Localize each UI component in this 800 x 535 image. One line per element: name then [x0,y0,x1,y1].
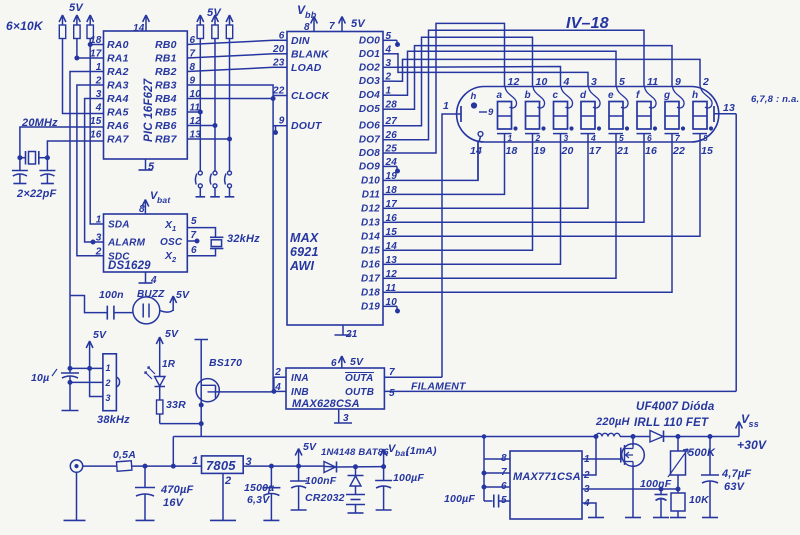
svg-text:INA: INA [291,373,309,384]
tube digit 4 anode bar pin 4 [581,133,597,143]
label 2x22pF [16,188,56,200]
pin 27 DO6 stub [359,116,397,132]
5V arrow buzzer [170,289,190,311]
crystal X2 32kHz [210,237,223,248]
svg-text:6×10K: 6×10K [6,19,44,33]
svg-text:c: c [553,90,559,101]
pin 7 RB1 [155,49,196,65]
label +30V [737,438,767,452]
svg-text:1: 1 [584,454,590,465]
capacitor 22pF right [39,158,55,184]
pin 13 D16 stub [361,255,397,271]
label MAX 6921 AWI [289,231,319,273]
svg-text:7: 7 [329,21,335,32]
ground 4.7uF [702,517,718,519]
tube grid pin 2 label [702,76,709,88]
svg-text:3: 3 [96,233,102,244]
svg-text:14: 14 [133,23,145,34]
tube filament bar left [460,106,462,122]
pin 8 Vbb arrow [304,17,317,34]
pin 3 ALARM DS1629 [96,233,146,249]
pin 2 RA3 [95,76,129,92]
svg-text:13: 13 [386,255,398,266]
node 100uF Vbat junction [382,465,386,469]
svg-text:D11: D11 [362,189,380,200]
svg-text:MAX: MAX [290,231,319,245]
capacitor 100n buzzer [107,306,114,320]
wire DO6 to grid 10 [397,37,533,126]
5V arrow pull-up 1 left [59,15,66,25]
pin 15 RA6 [90,116,129,132]
svg-text:23: 23 [272,57,285,68]
LED D1 infrared emission arrows [145,367,155,379]
svg-text:RA7: RA7 [107,134,130,146]
svg-text:2: 2 [274,367,281,378]
svg-text:15: 15 [90,116,102,127]
label 20MHz [21,117,58,129]
svg-text:15: 15 [701,145,713,157]
tube digit 3 grid wire hook [561,87,573,109]
svg-text:2: 2 [95,76,102,87]
pin 1 7805 [192,455,198,467]
svg-text:ALARM: ALARM [107,238,146,249]
pin 9 DOUT MAX6921 [279,116,323,133]
wire RA3 from PIC pin 2 down to SDC [77,85,104,256]
svg-text:28: 28 [385,100,398,111]
pin 25 DO8 stub [359,144,397,160]
svg-text:11: 11 [647,76,658,88]
pin 3 ground MAX628 [339,409,349,424]
svg-text:a: a [497,90,503,101]
svg-text:15: 15 [386,227,398,238]
node output cap [708,435,712,439]
svg-text:18: 18 [90,35,102,46]
pin 8 MAX771 [484,453,510,464]
svg-text:19: 19 [386,171,398,182]
svg-text:5V: 5V [303,441,317,453]
tube digit 2 anode bar pin 2 [525,133,541,143]
svg-text:100nF: 100nF [640,478,672,490]
wire DO1 to grid 3 [397,54,588,87]
svg-text:25: 25 [385,144,398,155]
svg-text:6: 6 [279,30,285,41]
tube grid pin 3 label [591,76,597,88]
svg-text:19: 19 [534,145,546,157]
node 470u junction [143,464,147,468]
pin 6 DIN MAX6921 [279,30,310,47]
node INB junction [272,389,276,393]
svg-text:100µF: 100µF [393,472,424,484]
tube digit 4 grid wire hook [589,87,601,109]
svg-text:1: 1 [106,363,111,373]
svg-text:10µ: 10µ [31,372,49,384]
wire RB4 down to MAX628 inputs [187,96,273,392]
tube digit 1 seven-segment body [498,102,512,130]
label 470uF 16V [160,484,193,509]
ground 1500u [263,519,279,521]
buzzer BUZZ [133,289,165,324]
pin 16 D13 stub [361,213,397,229]
pin 4 RA5 [95,103,129,119]
svg-text:20: 20 [561,145,574,157]
svg-text:2×22pF: 2×22pF [16,188,56,200]
svg-text:RB6: RB6 [155,120,177,132]
svg-text:1N4148 BAT86: 1N4148 BAT86 [321,447,389,458]
svg-text:24: 24 [385,157,398,168]
pin 4 DO1 stub [359,44,397,60]
svg-text:6: 6 [331,358,337,369]
wire IR pin 1 [70,367,103,369]
microcontroller U1 PIC16F627 box [104,31,188,159]
wire X2 to 32kHz crystal [187,249,215,256]
node DO9 nc dot [396,166,400,173]
node RA1 junction [75,56,79,60]
pin 14 VDD arrow on PIC [133,15,149,34]
ground MAX771 pin4 [588,517,604,519]
svg-text:DO1: DO1 [359,49,380,60]
tube digit 4 segment letter d [580,90,587,101]
5V arrow IR LED [156,328,179,377]
label 32kHz [227,233,260,245]
tube digit 8 grid wire hook [701,87,713,109]
diode D2 1N4148 BAT86 [321,447,389,473]
node pot top [676,435,680,439]
label Vbb on MAX6921 [297,3,317,20]
svg-text:UF4007 Dióda: UF4007 Dióda [636,401,715,413]
svg-text:1500µ: 1500µ [244,482,274,494]
svg-text:CLOCK: CLOCK [291,90,331,102]
svg-text:5V: 5V [350,356,364,368]
svg-text:12: 12 [508,76,520,88]
wire unregulated rail [173,436,596,438]
svg-text:2: 2 [171,255,177,264]
wire fuse to 7805 [132,465,202,467]
pin 7 OSC nc stub [187,240,195,242]
transistor Q2 IRLL110 [618,437,645,518]
svg-text:5V: 5V [351,18,366,30]
pin 10 RB4 [155,89,201,105]
pin 2 INA MAX628 [274,367,309,384]
svg-text:d: d [580,90,587,101]
tube digit 7 grid wire hook [673,87,685,109]
wire RA0 to PIC pin 18 [90,44,103,46]
5V supply label left [69,2,84,14]
resistor 10K pull-up 3 left [87,25,93,39]
wire pull-up 2 to switch [214,39,216,172]
pin 5 VSS ground on PIC [146,159,156,173]
svg-text:14: 14 [386,241,398,252]
svg-text:DO4: DO4 [359,90,380,101]
node IR pin2 junction [68,380,72,384]
label IRLL110 FET [634,417,709,429]
wire jack to fuse [83,465,117,467]
node BS170 rail junction [199,422,203,426]
5V arrow pull-up 3 right [226,15,233,25]
wire RA0 pull-up vertical to SDA [90,39,103,225]
svg-text:6: 6 [501,481,507,492]
svg-text:3: 3 [96,89,102,100]
tube pin 19 label [534,145,546,157]
wire cap to buzzer [114,312,133,314]
pin 12 RB6 [155,116,201,132]
capacitor 470uF 16V [135,466,155,520]
connector J1 power jack [70,460,82,521]
ground DS1629 [139,282,153,284]
ground 22pF right [41,183,54,185]
svg-text:DO6: DO6 [359,121,380,132]
tube digit 4 seven-segment body [581,102,595,130]
svg-text:RB7: RB7 [155,134,178,146]
svg-text:RB1: RB1 [155,53,177,65]
ground jack [64,519,86,521]
svg-text:DO2: DO2 [359,62,380,73]
svg-text:D13: D13 [361,217,380,228]
svg-text:D10: D10 [361,175,380,186]
label 38kHz [97,414,130,426]
svg-text:1: 1 [172,224,176,233]
tube symbol dot segment h [471,91,477,108]
wire D11 to tube pin 18 [397,142,505,194]
wire 33R to rail [160,414,202,424]
tube digit 5 anode bar pin 5 [609,133,625,143]
wire inductor to FET drain [620,436,650,438]
ground switch S1 [196,196,206,198]
transistor Q1 BS170 top bar [195,340,209,380]
pin 5 OUTB MAX628 [345,387,395,399]
tube digit 2 seven-segment body [526,102,540,130]
pin 7 MAX771 [484,467,510,478]
wire D18 to tube pin 22 [397,142,672,292]
VFD tube V1 IV-18 outline [457,87,719,143]
wire D13 to tube pin 16 [397,142,644,222]
label MAX771CSA [513,471,581,483]
wire RB7 to switch 3 [187,138,229,140]
svg-text:LOAD: LOAD [291,62,322,74]
5V arrow pull-up 1 right [197,15,204,25]
pin 1 MAX771 to FET gate [582,454,618,465]
svg-text:RB2: RB2 [155,66,177,78]
5V arrow pull-up 2 right [212,15,219,25]
svg-text:6,3V: 6,3V [247,494,270,506]
wire IR pin 2 [70,381,103,383]
svg-text:2: 2 [385,72,392,83]
tube grid pin 11 label [647,76,658,88]
wire RA6 from PIC pin 15 to crystal [20,127,104,158]
label 4.7uF 63V [721,468,751,493]
ground 10K [670,517,686,519]
tube digit 1 segment letter a [497,90,503,101]
wire D14 to tube pin 15 [397,142,700,236]
node RB7 junction [228,137,232,141]
svg-text:FILAMENT: FILAMENT [411,381,467,393]
svg-text:8: 8 [703,133,708,143]
svg-text:10: 10 [386,297,398,308]
tube pin 22 label [672,145,685,157]
svg-text:SDC: SDC [108,251,130,262]
svg-text:RA0: RA0 [107,39,129,51]
wire D10 to tube pin 14 [397,142,478,180]
pin 2 DO3 stub [359,72,397,88]
svg-text:100n: 100n [99,289,124,301]
svg-text:D18: D18 [361,287,380,298]
svg-text:D16: D16 [361,259,380,270]
tube grid pin 5 label [619,76,625,88]
label CR2032 [305,492,345,504]
ground PIC pin 5 [139,169,153,171]
svg-text:2: 2 [224,475,231,487]
wire tube pin 13 to OUTB filament [735,114,737,392]
pin 17 RA1 [90,49,129,65]
node 5V junction [297,464,301,468]
svg-text:9: 9 [488,107,494,118]
wire input rail up [172,437,174,467]
pin 6 RB0 [155,35,196,51]
svg-text:1: 1 [192,455,198,467]
svg-text:5: 5 [619,76,625,88]
Vss arrow +30V [736,412,759,437]
wire diode to Vbat node [324,465,384,468]
svg-text:h: h [471,91,477,102]
svg-text:2: 2 [583,470,590,481]
pin 19 D10 stub [361,171,397,187]
DOUT nc stub [274,126,288,131]
svg-text:RA4: RA4 [107,93,129,105]
capacitor 100nF feedback [655,489,668,518]
tube digit 7 segment letter g [663,90,670,101]
svg-text:IV–18: IV–18 [566,15,609,32]
pushbutton switch S3 [225,171,232,197]
label 100nF feedback [640,478,672,490]
wire filament left to OUTA [442,114,461,377]
wire RB6 to switch 2 [187,125,215,127]
capacitor 4.7uF 63V [701,437,719,518]
svg-text:6: 6 [191,245,197,256]
tube digit 8 seven-segment body [693,102,707,130]
svg-text:BS170: BS170 [209,357,242,369]
wire X1 to 32kHz crystal [187,228,215,238]
battery B1 CR2032 [346,495,365,514]
ground 22pF left [13,183,26,185]
wire BS170 rail down to power rail [200,424,202,437]
tube digit 1 decimal point [514,127,517,130]
label 1500u 6.3V [244,482,274,506]
tube digit 2 decimal point [542,127,545,130]
wire DO8 to grid 12 [397,23,505,153]
node IR pin1 junction [68,366,72,370]
svg-text:20MHz: 20MHz [21,117,58,129]
svg-text:20: 20 [272,44,285,55]
svg-text:RB5: RB5 [155,107,177,119]
wire DO5 to grid 9 [397,46,672,110]
regulator U6 7805 box [202,456,244,474]
svg-text:16: 16 [386,213,398,224]
5V supply label right resistors [207,7,222,19]
tube digit 6 decimal point [653,127,656,130]
svg-text:26: 26 [385,130,398,141]
pin 5 MAX771 with capacitor [484,495,510,508]
5V arrow pull-up 2 left [74,15,81,25]
svg-text:1R: 1R [162,359,176,370]
label DS1629 [108,260,151,272]
transistor Q1 BS170 [196,379,219,424]
pin 15 D14 stub [361,227,397,243]
pin 5 DO0 stub [359,31,397,47]
label UF4007 Dioda [636,401,715,413]
RTC U3 DS1629 box [104,214,188,272]
label 220uH [595,416,630,428]
tube grid pin 4 label [563,76,570,88]
svg-text:100µF: 100µF [444,493,475,505]
svg-text:4: 4 [95,103,102,114]
label 100nF backup [305,475,337,487]
svg-text:10K: 10K [689,494,710,506]
tube symbol o grid [478,132,483,142]
pin 24 DO9 stub [359,157,397,173]
resistor network RN1 6x10K label [6,19,44,33]
tube digit 3 seven-segment body [554,102,568,130]
svg-text:BLANK: BLANK [291,48,330,60]
svg-text:5V: 5V [176,289,190,301]
tube digit 5 grid wire hook [617,87,629,109]
pin 18 RA0 [90,35,129,51]
svg-text:2: 2 [535,133,541,143]
svg-text:12: 12 [386,269,398,280]
svg-text:2: 2 [702,76,709,88]
tube digit 6 segment letter f [636,90,641,101]
svg-text:RA3: RA3 [107,80,129,92]
pin 4 ground DS1629 [146,272,158,286]
svg-text:ss: ss [749,419,759,429]
tube pin 15 label [701,145,713,157]
pin 4 INB MAX628 [274,382,309,398]
wire buzzer to 5V [160,310,173,312]
svg-text:INB: INB [291,387,309,398]
wire DO4 to grid 5 [397,51,616,95]
svg-text:21: 21 [616,145,629,157]
svg-text:RB0: RB0 [155,39,177,51]
svg-text:5: 5 [148,161,155,173]
svg-text:5: 5 [501,495,507,506]
svg-text:5V: 5V [93,329,107,341]
tube digit 5 decimal point [625,127,628,130]
tube digit 3 anode bar pin 3 [553,133,569,143]
node 100nF tap [659,487,663,491]
svg-text:9: 9 [675,76,681,88]
node pin7 junction [482,471,486,475]
capacitor 10u [61,373,79,411]
tube digit 5 seven-segment body [609,102,623,130]
node BS170 source [199,403,203,407]
pin 2 MAX771 to inductor node [582,437,596,482]
pin 3 7805 [246,456,252,468]
svg-text:RA1: RA1 [107,53,129,65]
pin 3 DO2 stub [359,58,397,74]
label PIC16F627 vertical [143,78,155,142]
inductor L1 220uH [596,433,620,436]
svg-text:DO9: DO9 [359,161,380,172]
svg-text:5: 5 [389,388,395,399]
svg-text:22: 22 [672,145,685,157]
svg-text:bat: bat [157,195,171,205]
svg-text:3: 3 [106,393,111,403]
wire pull-up 3 to switch [229,39,231,172]
svg-text:33R: 33R [166,399,186,411]
ground MAX6921 [335,334,352,336]
svg-text:OUTA: OUTA [345,373,373,384]
svg-text:D15: D15 [361,245,380,256]
label 100uF MAX771 [444,493,475,505]
svg-text:27: 27 [385,116,398,127]
